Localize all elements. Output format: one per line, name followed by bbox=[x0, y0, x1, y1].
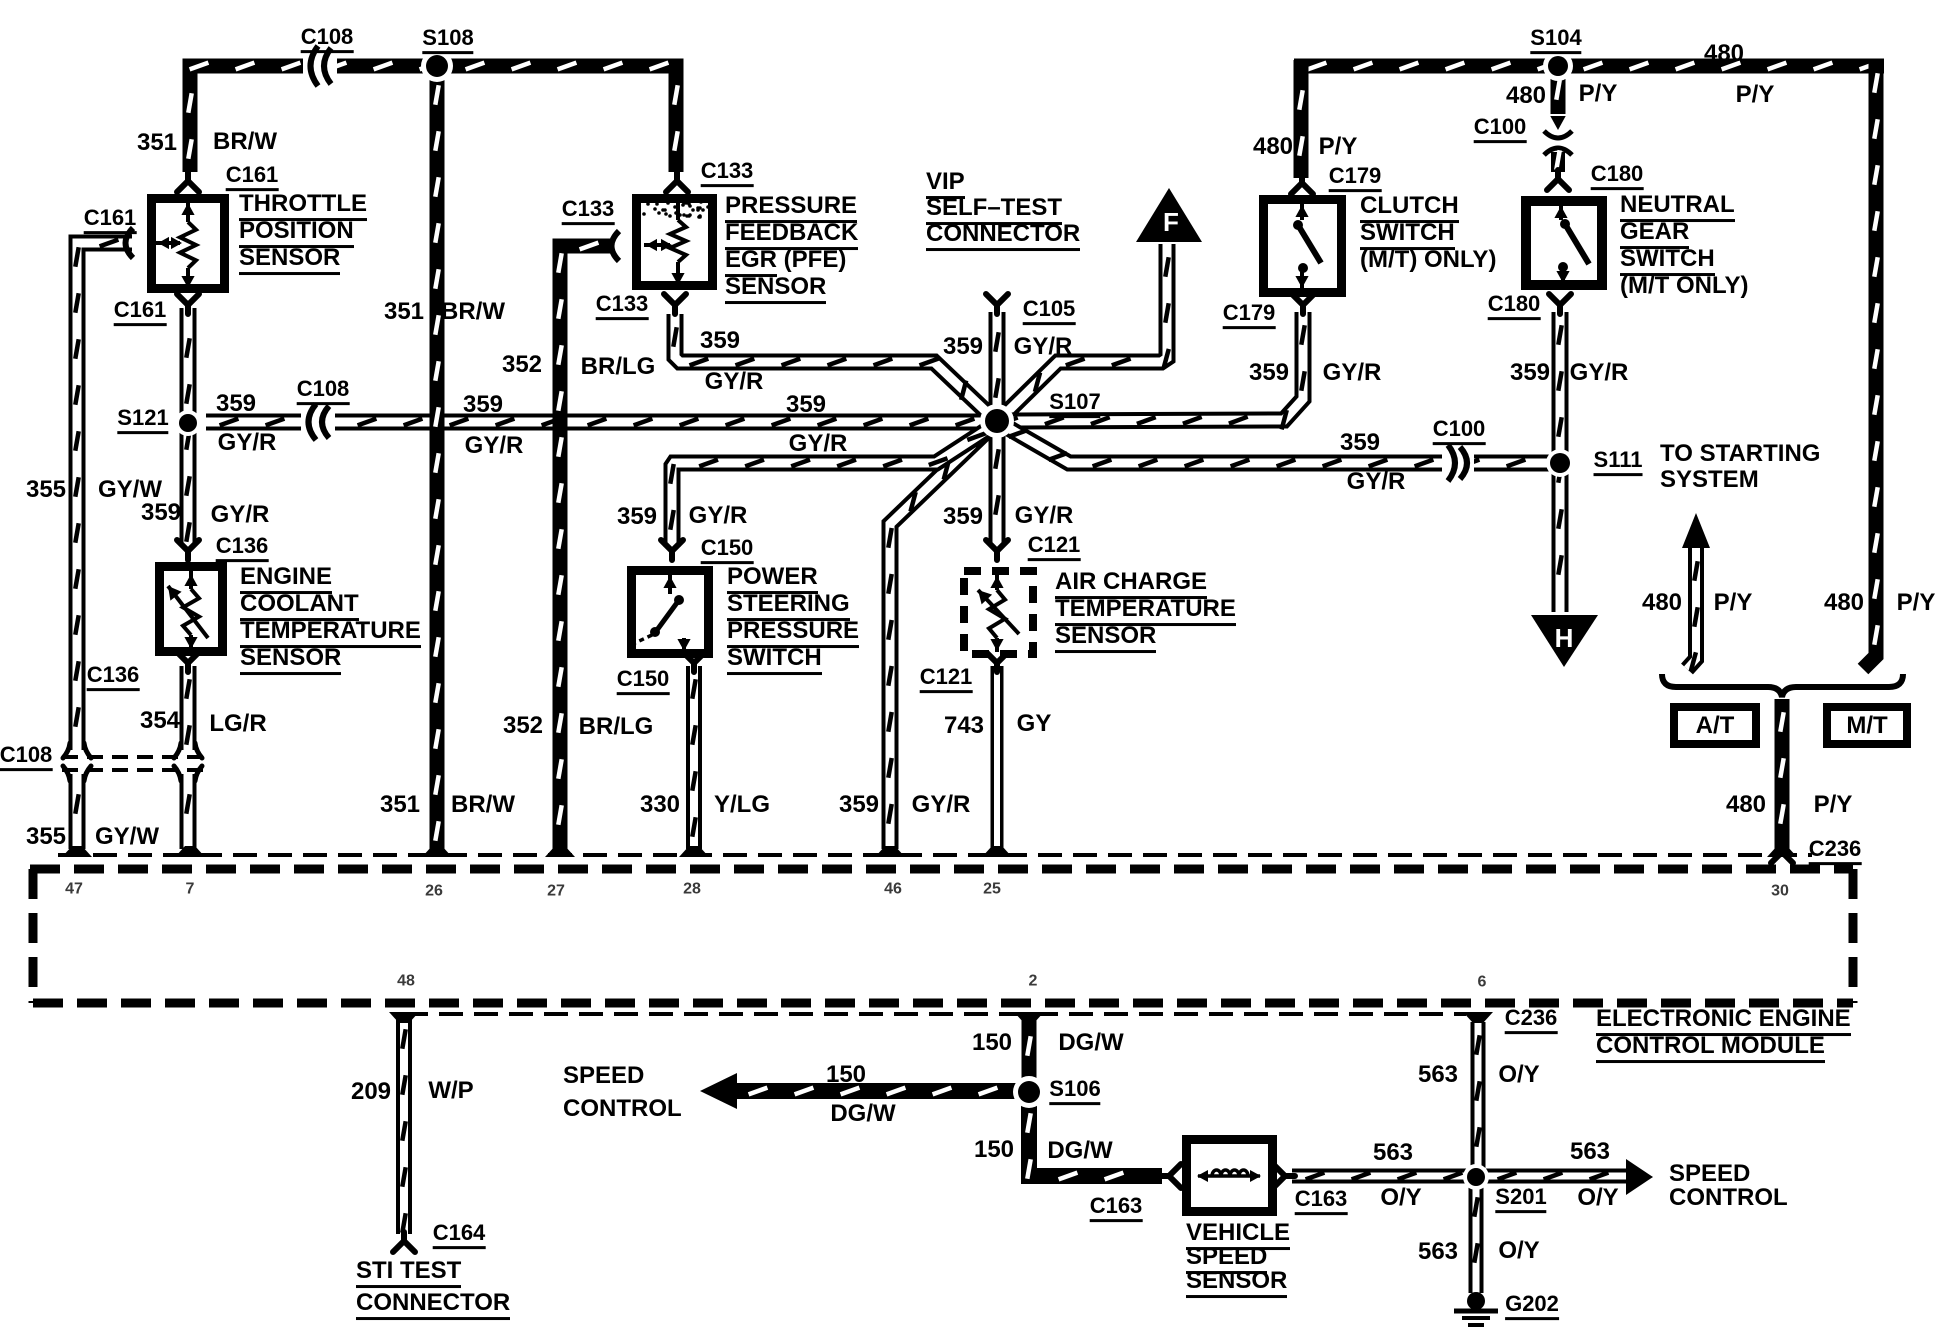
connector C163 fork right bbox=[1273, 1164, 1295, 1188]
wire 351 BR/W from S108 to ECM pin 26 bbox=[430, 72, 445, 849]
wire 150 DG/W from ECM pin 2 to S106 bbox=[1022, 1016, 1037, 1084]
wire 359 GY/R from VIP F connector to S107 bbox=[999, 244, 1167, 420]
splice S111 bbox=[1546, 449, 1574, 477]
wire 359 GY/R from S107 to C121 bbox=[989, 421, 1006, 546]
connector C161 arc left bbox=[126, 228, 134, 258]
svg-text:H: H bbox=[1555, 623, 1574, 653]
wire 563 O/Y from C163 to S201 bbox=[1292, 1169, 1468, 1184]
wire 563 O/Y from S201 to ground G202 bbox=[1469, 1184, 1484, 1293]
throttle position sensor box bbox=[152, 199, 225, 289]
wire 480 P/Y from S104 bus to C179 bbox=[1294, 60, 1309, 178]
wire 352 BR/LG from C133 to ECM pin 27 bbox=[560, 246, 612, 849]
connector C108 inline arcs on top bus bbox=[303, 50, 337, 82]
connector C136 fork top bbox=[177, 540, 199, 560]
connector C105 fork bbox=[986, 294, 1008, 314]
connector C164 fork bbox=[393, 1232, 415, 1252]
H arrow to starting system bbox=[1531, 615, 1598, 667]
wire 351 BR/W top bus C108-S108 bbox=[190, 66, 676, 172]
svg-text:F: F bbox=[1163, 207, 1179, 237]
connector C121 fork bottom bbox=[986, 652, 1008, 672]
vehicle speed sensor box bbox=[1187, 1140, 1273, 1212]
connector C100 male-female symbol bbox=[1550, 116, 1565, 130]
wire 355 GY/W from C161 to ECM pin 47 bbox=[77, 243, 132, 750]
connector C236 top dashed line bbox=[58, 853, 1812, 857]
splice S201 bbox=[1463, 1164, 1489, 1190]
ECM pin feet top bbox=[62, 846, 92, 857]
ECM pin feet bottom bbox=[389, 1012, 419, 1023]
air charge temperature sensor dashed box bbox=[964, 571, 1033, 654]
connector C179 fork bottom bbox=[1292, 294, 1314, 314]
wire 354 LG/R from C136 to ECM pin 7 bbox=[180, 666, 197, 750]
connector C161 fork top bbox=[177, 172, 199, 192]
VIP self-test connector F arrow bbox=[1136, 188, 1202, 242]
ECM module dashed enclosure bbox=[30, 865, 1853, 874]
wire 359 GY/R from S107 to ECM pin 46 bbox=[890, 422, 996, 849]
clutch switch box bbox=[1264, 200, 1342, 293]
wire 480 P/Y from brace to ECM pin 30 bbox=[1775, 699, 1790, 850]
wire 359 GY/R from S121 to S107 horizontal bbox=[206, 414, 986, 431]
wire 330 Y/LG from C150 to ECM pin 28 bbox=[686, 666, 702, 849]
connector C150 fork top bbox=[661, 540, 683, 560]
connector C163 fork left bbox=[1159, 1164, 1181, 1188]
wire 480 P/Y from S104 to C100 bbox=[1551, 72, 1566, 114]
wire 359 GY/R from C105 to S107 bbox=[989, 312, 1006, 421]
connector C133 fork top bbox=[666, 172, 688, 192]
A/T box bbox=[1674, 707, 1756, 744]
wire 150 DG/W from S106 to speed control arrow bbox=[735, 1083, 1021, 1099]
connector C236 fork pin 30 bbox=[1771, 843, 1793, 863]
splice S121 bbox=[175, 410, 201, 436]
speed control arrow right bbox=[1626, 1159, 1653, 1195]
connector C236 bottom dashed line bbox=[404, 1012, 1466, 1016]
splice S104 bbox=[1543, 51, 1573, 81]
arrow up from starting system bbox=[1682, 513, 1710, 548]
brace for A/T M/T bbox=[1662, 674, 1903, 697]
connector C108 inline arcs on 359 wire bbox=[301, 408, 335, 438]
connector C108 inline on left wires bbox=[62, 755, 205, 759]
wire 480 P/Y right edge to brace bbox=[1863, 60, 1876, 669]
wire 743 GY from C121 to ECM pin 25 bbox=[991, 666, 1004, 849]
wire 209 W/P from ECM pin 48 to C164 bbox=[396, 1016, 412, 1234]
wire 563 O/Y from S201 to speed control arrow bbox=[1484, 1169, 1626, 1184]
neutral gear switch box bbox=[1526, 201, 1602, 285]
splice S107 bbox=[980, 404, 1014, 438]
engine coolant temperature sensor box bbox=[160, 567, 223, 652]
ground G202 bbox=[1467, 1292, 1485, 1310]
wire 359 GY/R from S107 to C150 bbox=[672, 424, 996, 547]
wire 563 O/Y from ECM pin 6 to S201 bbox=[1471, 1022, 1486, 1168]
wire 359 GY/R from C133 to S107 bbox=[675, 314, 995, 420]
connector C161 fork bottom bbox=[177, 294, 199, 314]
connector C133 fork bottom bbox=[664, 294, 686, 314]
splice S106 bbox=[1013, 1076, 1045, 1108]
power steering pressure switch box bbox=[632, 571, 709, 654]
wire 480 P/Y bus S104 bbox=[1294, 59, 1884, 74]
connector C150 fork bottom bbox=[683, 652, 705, 672]
connector C100 inline arcs on 359 wire bbox=[1442, 448, 1474, 478]
speed control arrow left bbox=[700, 1073, 737, 1109]
pressure feedback EGR sensor box bbox=[637, 199, 713, 286]
connector C136 fork bottom bbox=[177, 652, 199, 672]
connector C133 arc left bbox=[612, 231, 620, 261]
wire 150 DG/W from S106 to C163 vehicle speed sensor bbox=[1029, 1100, 1162, 1176]
wire 359 GY/R from C180 through S111 to H arrow bbox=[1552, 312, 1569, 612]
connector C179 fork top bbox=[1291, 174, 1313, 194]
connector C121 fork top bbox=[986, 540, 1008, 560]
M/T box bbox=[1827, 707, 1907, 744]
wire 359 GY/R from S107 to C100 and S111 bbox=[998, 422, 1556, 463]
wire 359 GY/R from C161 through S121 to C136 bbox=[180, 308, 197, 546]
wire 480 P/Y arrow shaft from starting system bbox=[1687, 548, 1696, 669]
splice S108 bbox=[421, 50, 453, 82]
wire 359 GY/R from C179 to S107 bbox=[999, 312, 1303, 421]
connector C180 fork bottom bbox=[1549, 294, 1571, 314]
